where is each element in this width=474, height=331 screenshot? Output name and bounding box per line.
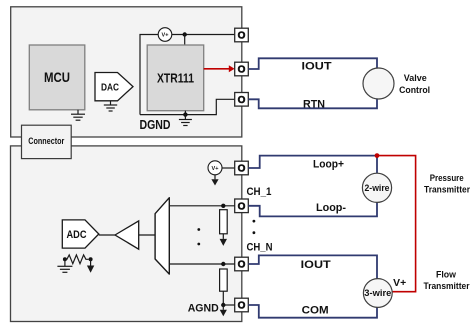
wire pressure loop (blue) bbox=[248, 156, 377, 217]
svg-text:O: O bbox=[238, 164, 246, 175]
wire (XTR111 bottom / DGND return) bbox=[140, 99, 235, 114]
pin O6 (CH_N / IOUT) bbox=[235, 257, 249, 271]
node (DGND) bbox=[183, 112, 187, 116]
multiplexer bbox=[155, 198, 169, 274]
svg-text:IOUT: IOUT bbox=[301, 259, 331, 271]
svg-text:ADC: ADC bbox=[67, 229, 87, 241]
ground (analog, below R3 left) bbox=[57, 259, 72, 272]
resistor R3 (ground isolation zigzag) bbox=[65, 255, 89, 264]
wire (R2 to AGND) bbox=[222, 291, 224, 305]
svg-text:DGND: DGND bbox=[140, 118, 171, 132]
wire (AGND to pin O7) bbox=[223, 304, 234, 306]
svg-text:V+: V+ bbox=[393, 278, 406, 289]
svg-text:O: O bbox=[238, 301, 246, 312]
pin O7 (AGND / COM) bbox=[235, 298, 249, 312]
svg-text:Transmitter: Transmitter bbox=[424, 281, 470, 292]
wire (mux to pin O5 / CH_1) bbox=[169, 205, 234, 207]
XTR111 block bbox=[147, 45, 204, 111]
wire (ADC to amplifier) bbox=[99, 234, 115, 236]
svg-text:IOUT: IOUT bbox=[302, 61, 332, 73]
pin O2 (IOUT) bbox=[235, 62, 249, 76]
wire (V+ to pin O4) bbox=[222, 167, 235, 169]
red wire (V+ to 3-wire) bbox=[377, 156, 416, 292]
ground (DGND) bbox=[179, 115, 192, 126]
wire (mux to pin O6 / CH_N) bbox=[169, 263, 234, 265]
2-wire transmitter circle bbox=[362, 173, 391, 202]
svg-text:V+: V+ bbox=[162, 33, 169, 39]
arrow down (below V+) bbox=[211, 175, 218, 186]
svg-text:MCU: MCU bbox=[44, 69, 70, 85]
svg-text:XTR111: XTR111 bbox=[157, 71, 194, 86]
arrow down (below R3 right) bbox=[87, 259, 94, 273]
svg-text:O: O bbox=[238, 31, 246, 42]
svg-text:Pressure: Pressure bbox=[430, 173, 464, 184]
svg-text:O: O bbox=[238, 65, 246, 76]
red node (Loop+ tap) bbox=[375, 153, 380, 158]
node (AGND) bbox=[221, 303, 225, 307]
analog section box bbox=[11, 146, 242, 322]
wire (amplifier to mux) bbox=[139, 234, 155, 236]
wire (node to XTR111 top) bbox=[184, 35, 186, 46]
mux ellipsis dots bbox=[197, 228, 200, 245]
node (ground isolation right) bbox=[89, 257, 93, 261]
label Valve Control bbox=[399, 73, 430, 96]
arrow down (AGND) bbox=[220, 305, 227, 316]
svg-text:2-wire: 2-wire bbox=[365, 183, 390, 193]
wire V+ supply loop bbox=[140, 35, 235, 115]
svg-text:O: O bbox=[238, 202, 246, 213]
label Pressure Transmitter bbox=[424, 173, 470, 195]
svg-text:O: O bbox=[238, 260, 246, 271]
wire flow loop (blue) bbox=[248, 255, 377, 317]
svg-text:RTN: RTN bbox=[303, 99, 325, 111]
supply V+ source circle (analog) bbox=[208, 161, 222, 175]
svg-text:CH_1: CH_1 bbox=[247, 186, 272, 198]
svg-text:3-wire: 3-wire bbox=[364, 288, 391, 298]
svg-text:CH_N: CH_N bbox=[247, 242, 273, 254]
node (supply to XTR111) bbox=[183, 32, 187, 36]
ground (MCU) bbox=[71, 110, 85, 120]
pin O4 (Loop+) bbox=[235, 161, 249, 175]
svg-text:Control: Control bbox=[399, 85, 430, 96]
svg-text:Loop+: Loop+ bbox=[313, 158, 344, 170]
pin O5 (CH_1) bbox=[235, 199, 249, 213]
supply V+ source circle bbox=[158, 28, 172, 42]
valve control actuator circle bbox=[363, 68, 394, 99]
pin O1 (V+) bbox=[235, 28, 249, 42]
svg-text:Flow: Flow bbox=[436, 269, 457, 280]
svg-text:O: O bbox=[238, 95, 246, 106]
node (CH_N divider) bbox=[221, 262, 225, 266]
svg-text:Transmitter: Transmitter bbox=[424, 184, 470, 195]
wire valve loop (blue) bbox=[248, 58, 377, 108]
svg-text:DAC: DAC bbox=[101, 82, 119, 94]
ADC block bbox=[62, 220, 99, 248]
svg-text:Valve: Valve bbox=[404, 73, 427, 84]
svg-text:Loop-: Loop- bbox=[316, 202, 346, 214]
3-wire transmitter circle bbox=[363, 279, 392, 308]
connector bbox=[22, 125, 72, 158]
svg-text:AGND: AGND bbox=[188, 303, 219, 315]
node (ground isolation left) bbox=[63, 257, 67, 261]
resistor R1 bbox=[220, 210, 228, 234]
ground (DAC) bbox=[104, 101, 117, 111]
pin O3 (RTN) bbox=[235, 93, 249, 107]
arrow down (below R1) bbox=[220, 234, 227, 246]
amplifier bbox=[115, 221, 139, 249]
digital section box bbox=[11, 7, 242, 137]
resistor R2 bbox=[220, 269, 228, 291]
svg-text:V+: V+ bbox=[212, 166, 219, 172]
DAC block bbox=[95, 73, 133, 101]
channel ellipsis dots bbox=[253, 220, 256, 234]
node (CH_1 divider) bbox=[221, 204, 225, 208]
MCU block bbox=[29, 45, 85, 110]
red wire XTR111 output arrow bbox=[204, 65, 235, 72]
svg-text:Connector: Connector bbox=[28, 136, 64, 146]
svg-text:COM: COM bbox=[302, 304, 329, 316]
label Flow Transmitter bbox=[424, 269, 470, 292]
